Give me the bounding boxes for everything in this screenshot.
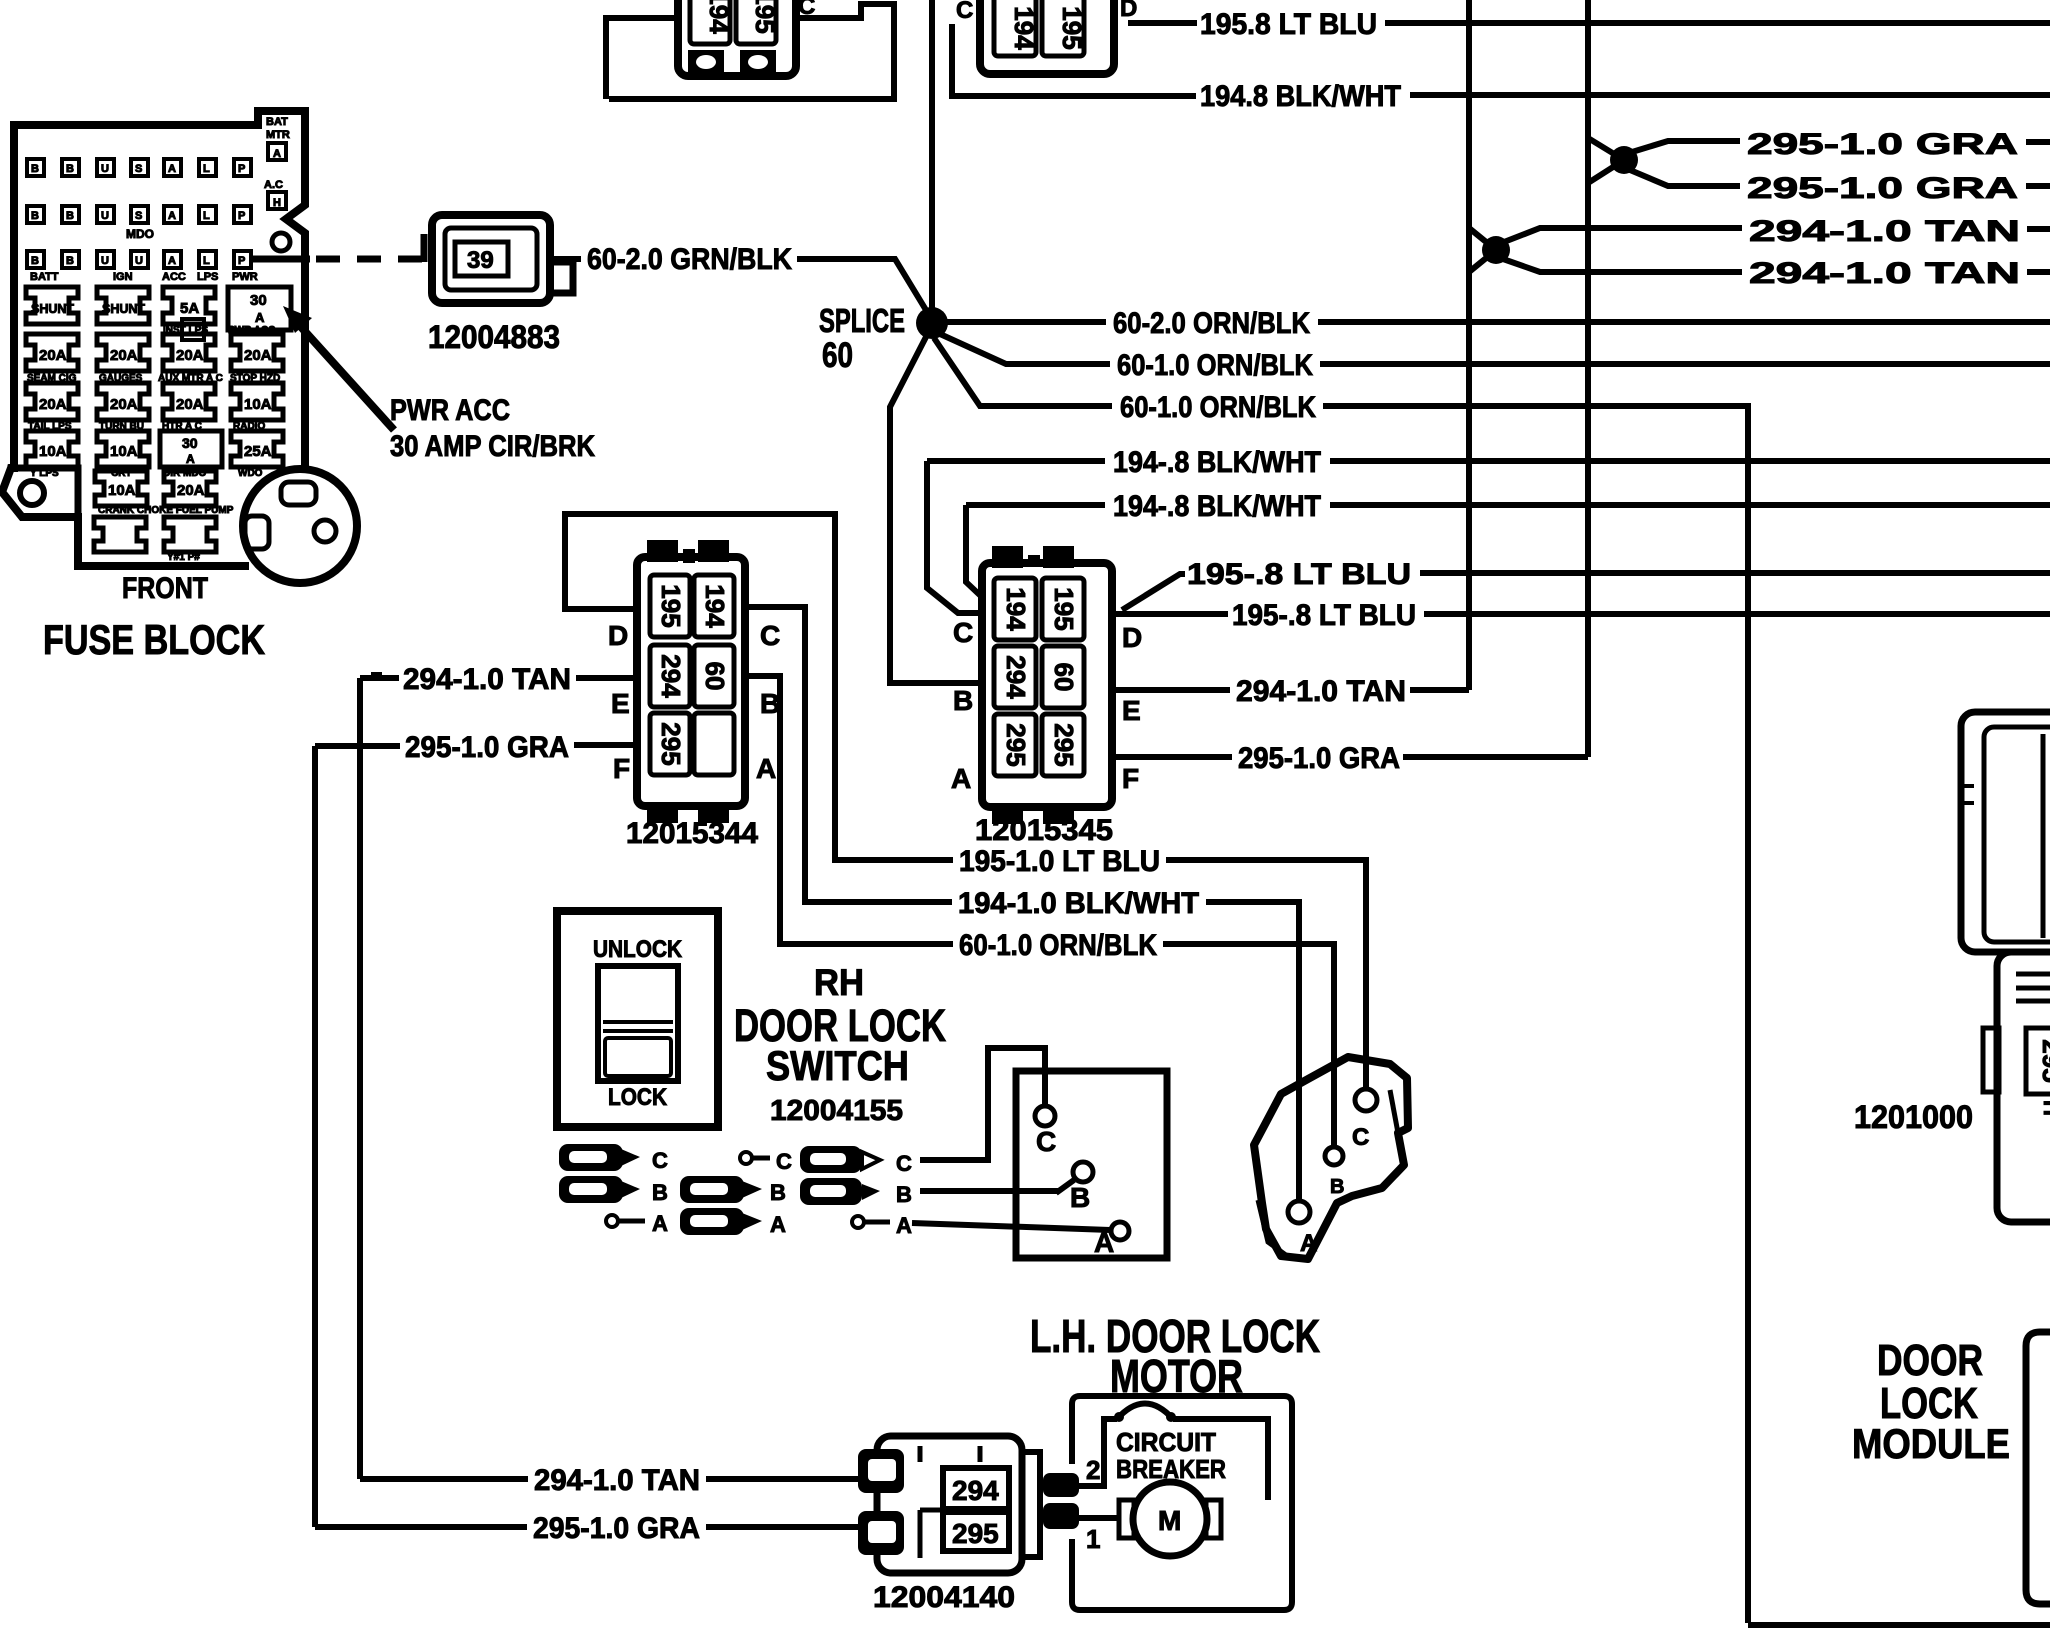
contact B [1073, 1162, 1093, 1182]
actuator pin A [1288, 1201, 1310, 1223]
fuse 20A r3c1 [26, 383, 78, 420]
wire 295-1.0 GRA from pin F to vertical [1112, 754, 1232, 760]
svg-text:20A: 20A [176, 347, 204, 364]
svg-text:ACC: ACC [162, 271, 186, 283]
svg-text:BAT: BAT [266, 116, 288, 128]
junction S2 [1482, 236, 1510, 264]
svg-text:60-2.0 ORN/BLK: 60-2.0 ORN/BLK [1113, 307, 1310, 340]
svg-text:RH: RH [814, 962, 864, 1003]
wire label to splice 60 [797, 259, 929, 315]
svg-text:H: H [2039, 1100, 2050, 1116]
motor circuit box [1043, 1396, 1292, 1610]
svg-text:LPS: LPS [197, 271, 218, 283]
square A [268, 143, 286, 160]
svg-text:195-.8 LT BLU: 195-.8 LT BLU [1187, 558, 1411, 591]
svg-text:A: A [770, 1212, 786, 1237]
svg-text:PWR ACC: PWR ACC [390, 394, 510, 427]
wire pin C to 194-1.0 BLK/WHT [745, 607, 952, 902]
svg-text:Y LPS: Y LPS [30, 468, 59, 479]
svg-text:WDO: WDO [238, 468, 263, 479]
square H [268, 192, 286, 209]
svg-text:295: 295 [1049, 723, 1079, 766]
wire 60-1.0 ORN/BLK first [940, 334, 1110, 364]
svg-text:E: E [1122, 695, 1141, 726]
svg-text:PWR: PWR [232, 271, 258, 283]
wire terminal 2 to breaker [1079, 1419, 1117, 1486]
svg-text:F: F [1122, 763, 1139, 794]
actuator pin C [1355, 1089, 1377, 1111]
svg-text:5A: 5A [180, 300, 199, 317]
wire 194-.8 BLK/WHT second [966, 502, 1105, 508]
lobe slot vertical [245, 516, 269, 549]
svg-text:294: 294 [952, 1475, 999, 1506]
svg-text:C: C [956, 0, 973, 24]
svg-text:P: P [238, 255, 245, 267]
svg-text:B: B [896, 1182, 912, 1207]
svg-text:H: H [273, 197, 281, 209]
svg-text:L: L [203, 163, 210, 175]
svg-text:U: U [135, 255, 143, 267]
RH DOOR LOCK SWITCH label [734, 962, 946, 1127]
svg-text:B: B [31, 255, 39, 267]
svg-text:A: A [951, 763, 971, 794]
svg-text:C: C [953, 617, 973, 648]
svg-text:1: 1 [1086, 1524, 1100, 1554]
circuit breaker 30A r4c3 [160, 431, 222, 467]
fuse 20A r2c3 [163, 334, 215, 371]
svg-text:UNLOCK: UNLOCK [593, 936, 683, 963]
svg-text:L: L [203, 210, 210, 222]
svg-text:DOOR: DOOR [1877, 1336, 1983, 1385]
svg-text:10A: 10A [244, 396, 272, 413]
svg-text:20A: 20A [39, 396, 67, 413]
svg-text:60: 60 [822, 336, 853, 375]
left wire 294-1.0 TAN to 12015344 pin E [360, 675, 399, 681]
svg-text:295-1.0 GRA: 295-1.0 GRA [1747, 172, 2018, 205]
svg-text:195: 195 [750, 0, 780, 34]
G3 plug B [800, 1178, 862, 1205]
circuit breaker 30A PWR ACC [228, 287, 291, 330]
motor M [1133, 1482, 1207, 1556]
G2 pin C [740, 1152, 752, 1164]
svg-text:194.8 BLK/WHT: 194.8 BLK/WHT [1200, 80, 1401, 113]
fuse SHUNT 2 [97, 287, 149, 324]
stray ink blob [371, 672, 382, 680]
svg-text:P: P [238, 163, 245, 175]
svg-text:B: B [66, 210, 74, 222]
fuse block bottom-right lobe [243, 469, 357, 583]
door lock actuator [1254, 1057, 1408, 1259]
svg-text:194-1.0 BLK/WHT: 194-1.0 BLK/WHT [958, 887, 1199, 920]
terminal 1 blob [1043, 1503, 1079, 1529]
svg-text:20A: 20A [244, 347, 272, 364]
svg-text:B: B [66, 163, 74, 175]
svg-text:CIRCUIT: CIRCUIT [1116, 1427, 1216, 1457]
switch contact box [912, 1048, 1167, 1258]
edge circle [272, 233, 290, 251]
svg-text:295-1.0 GRA: 295-1.0 GRA [533, 1512, 700, 1545]
arrow to 30A breaker [301, 327, 394, 430]
PWR ACC 30 AMP CIR/BRK callout [283, 306, 595, 463]
svg-text:C: C [776, 1149, 792, 1174]
wire breaker to motor [1173, 1419, 1268, 1500]
lever to contact B [1056, 1180, 1074, 1193]
svg-text:294-1.0 TAN: 294-1.0 TAN [1236, 675, 1406, 708]
fuse block FB1 [2, 111, 382, 680]
wire 195-.8 LT BLU second [1114, 611, 1228, 617]
wire 294-1.0 TAN upper [1504, 228, 1742, 242]
top-left connector C100 [678, 0, 815, 76]
svg-text:194-.8 BLK/WHT: 194-.8 BLK/WHT [1113, 490, 1321, 523]
svg-text:A: A [168, 255, 176, 267]
svg-text:S: S [135, 210, 142, 222]
svg-text:12004140: 12004140 [873, 1581, 1015, 1614]
contact A [1111, 1222, 1129, 1240]
svg-text:12015345: 12015345 [975, 814, 1113, 847]
G3 pin A [852, 1216, 864, 1228]
svg-text:SPLICE: SPLICE [819, 302, 905, 339]
svg-text:Y#1 P#: Y#1 P# [167, 552, 200, 563]
svg-text:195: 195 [656, 584, 686, 627]
svg-text:B: B [1330, 1176, 1344, 1198]
svg-text:10A: 10A [108, 482, 136, 499]
svg-text:C: C [896, 1151, 912, 1176]
svg-text:60-2.0 GRN/BLK: 60-2.0 GRN/BLK [587, 243, 792, 276]
svg-text:A: A [273, 148, 281, 160]
svg-text:FUSE BLOCK: FUSE BLOCK [43, 616, 265, 663]
fuse 20A r3c3 [163, 383, 215, 420]
svg-text:B: B [1070, 1182, 1090, 1213]
wire 194-.8 BLK/WHT first [927, 458, 1105, 464]
svg-text:1201000: 1201000 [1854, 1099, 1973, 1135]
svg-text:195: 195 [1049, 587, 1079, 630]
G2 plug A [680, 1208, 744, 1235]
svg-text:A: A [1300, 1230, 1317, 1257]
svg-text:A: A [255, 310, 265, 325]
lobe hole [314, 520, 336, 542]
svg-text:60-1.0 ORN/BLK: 60-1.0 ORN/BLK [1120, 391, 1316, 424]
terminal group G2 [680, 1149, 792, 1237]
svg-text:2: 2 [1086, 1455, 1100, 1485]
svg-text:20A: 20A [39, 347, 67, 364]
wire 195-.8 LT BLU first [1122, 574, 1185, 610]
svg-text:294-1.0 TAN: 294-1.0 TAN [1749, 257, 2020, 290]
svg-text:LOCK: LOCK [608, 1084, 668, 1111]
svg-text:30: 30 [182, 435, 198, 451]
wire G3 B to lever [920, 1191, 1056, 1194]
terminal group G3 [800, 1146, 912, 1238]
svg-text:C: C [798, 0, 815, 20]
fuse 5A [163, 287, 215, 324]
fuse r6c2 [94, 517, 146, 552]
fuse 20A r3c2 [97, 383, 149, 420]
svg-text:U: U [101, 210, 109, 222]
svg-text:IGN: IGN [113, 271, 133, 283]
connector square grid rows [27, 159, 251, 268]
svg-text:194: 194 [1001, 587, 1031, 631]
svg-text:194: 194 [1009, 6, 1039, 50]
SPLICE 60 [819, 302, 948, 375]
svg-text:A: A [896, 1213, 912, 1238]
wire 295-1.0 GRA lower [1630, 170, 1740, 186]
lobe slot D [281, 482, 316, 505]
vertical wire to junction S2 [1466, 0, 1472, 690]
svg-text:B: B [652, 1180, 668, 1205]
svg-text:20A: 20A [176, 396, 204, 413]
wire 295-1.0 GRA bottom [315, 1524, 527, 1530]
svg-text:194: 194 [700, 584, 730, 628]
fuse 20A r2c4 [231, 334, 283, 371]
svg-text:295-1.0 GRA: 295-1.0 GRA [1238, 742, 1400, 775]
svg-text:C: C [652, 1148, 668, 1173]
connector 1201000 [1854, 712, 2050, 1222]
svg-text:60: 60 [1049, 663, 1079, 692]
fuse 10A r4c2 [97, 431, 149, 467]
fuse 20A r2c1 [26, 334, 78, 371]
svg-text:C: C [760, 620, 780, 651]
fuse sub block under 5A [182, 319, 204, 340]
wire pin D loop to 195-1.0 LT BLU [565, 514, 953, 860]
wire 60-1.0 ORN/BLK second to door lock module [934, 338, 1112, 406]
svg-text:295: 295 [2037, 1039, 2050, 1082]
G2 plug B [680, 1176, 744, 1203]
svg-text:MTR: MTR [266, 129, 290, 141]
svg-text:B: B [770, 1180, 786, 1205]
svg-text:295: 295 [656, 722, 686, 765]
circuit breaker arc [1117, 1404, 1173, 1420]
svg-text:A: A [168, 210, 176, 222]
svg-text:L: L [203, 255, 210, 267]
svg-text:C: C [1036, 1126, 1056, 1157]
wire 294-1.0 TAN bottom [360, 1476, 528, 1482]
svg-text:U: U [101, 163, 109, 175]
wire 60-1.0 ORN/BLK from splice to 12015345 pin B [890, 335, 982, 683]
svg-text:195: 195 [1057, 6, 1087, 49]
junction S1 [1610, 146, 1638, 174]
connector 12015344 [608, 543, 780, 850]
svg-text:60: 60 [700, 662, 730, 691]
svg-text:A: A [756, 753, 776, 784]
svg-text:20A: 20A [110, 396, 138, 413]
door lock switch rocker [557, 911, 718, 1127]
svg-text:12004883: 12004883 [428, 319, 560, 355]
svg-text:SWITCH: SWITCH [766, 1042, 909, 1089]
contact C [1035, 1106, 1055, 1126]
svg-text:B: B [31, 210, 39, 222]
top-right connector box wire [952, 24, 1196, 96]
svg-text:194-.8 BLK/WHT: 194-.8 BLK/WHT [1113, 446, 1321, 479]
G1 pin A [606, 1215, 618, 1227]
svg-text:294-1.0 TAN: 294-1.0 TAN [534, 1464, 700, 1497]
svg-text:294-1.0 TAN: 294-1.0 TAN [1749, 215, 2020, 248]
fuse 20A r2c2 [97, 334, 149, 371]
fuse SHUNT 1 [26, 287, 78, 324]
svg-text:F: F [613, 753, 630, 784]
connector 12004140 [858, 1436, 1040, 1614]
svg-text:SHUNT: SHUNT [31, 301, 74, 316]
svg-text:60-1.0 ORN/BLK: 60-1.0 ORN/BLK [959, 929, 1157, 962]
dashed wire fuse block to 12004883 [252, 256, 310, 263]
svg-text:294: 294 [1001, 655, 1031, 699]
svg-text:294: 294 [656, 654, 686, 698]
svg-text:25A: 25A [244, 443, 272, 460]
svg-text:195.8 LT BLU: 195.8 LT BLU [1200, 8, 1377, 41]
svg-text:30: 30 [250, 292, 267, 309]
svg-text:12004155: 12004155 [770, 1095, 903, 1127]
connector 12015345 [951, 549, 1142, 847]
svg-text:10A: 10A [39, 443, 67, 460]
svg-text:B: B [66, 255, 74, 267]
svg-text:CRANK CHOKE FUEL PUMP: CRANK CHOKE FUEL PUMP [98, 505, 234, 516]
wire 195.8 LT BLU [1128, 20, 1197, 26]
fuse 25A r4c4 [231, 431, 283, 467]
svg-text:12015344: 12015344 [626, 817, 758, 850]
svg-text:195-1.0 LT BLU: 195-1.0 LT BLU [959, 845, 1160, 878]
svg-text:10A: 10A [110, 443, 138, 460]
fuse 10A r4c1 [26, 431, 78, 467]
left vertical wire 294 [357, 678, 363, 1479]
door lock module inner box [2026, 1332, 2050, 1604]
terminal group G1 [559, 1144, 668, 1236]
svg-text:294-1.0 TAN: 294-1.0 TAN [403, 663, 571, 696]
svg-text:C: C [1352, 1124, 1369, 1151]
terminal 2 blob [1043, 1473, 1079, 1497]
svg-text:MODULE: MODULE [1852, 1420, 2010, 1467]
svg-text:BATT: BATT [30, 271, 59, 283]
wire pin B to 60-1.0 ORN/BLK [745, 676, 953, 944]
G1 plug C [559, 1144, 623, 1171]
svg-text:MDO: MDO [126, 227, 154, 241]
wire 60-2.0 ORN/BLK [946, 319, 1106, 325]
svg-text:60-1.0 ORN/BLK: 60-1.0 ORN/BLK [1117, 349, 1313, 382]
svg-text:B: B [31, 163, 39, 175]
fuse 20A r5c3 [164, 471, 216, 506]
svg-text:U: U [101, 255, 109, 267]
fuse 10A r5c2 [95, 471, 147, 506]
wire terminal 1 to motor [1079, 1515, 1119, 1521]
svg-text:M: M [1158, 1505, 1181, 1536]
svg-text:20A: 20A [177, 482, 205, 499]
wire 294-1.0 TAN from pin E to vertical [1112, 687, 1230, 693]
svg-text:20A: 20A [110, 347, 138, 364]
fuse r6c3 [164, 517, 216, 552]
wire 294-1.0 TAN lower [1503, 259, 1742, 272]
wire splice vertical to top [929, 0, 935, 310]
tab hole [20, 481, 44, 505]
svg-text:39: 39 [467, 247, 494, 274]
svg-text:D: D [608, 620, 628, 651]
svg-text:D: D [1122, 622, 1142, 653]
fuse 10A r3c4 [231, 383, 283, 420]
G3 plug C [800, 1146, 862, 1173]
connector 12004883 [424, 215, 573, 355]
left wire 295-1.0 GRA to 12015344 pin F [315, 743, 400, 749]
svg-text:295-1.0 GRA: 295-1.0 GRA [405, 731, 569, 764]
G1 plug B [559, 1176, 623, 1203]
svg-text:A: A [186, 452, 195, 466]
svg-text:D: D [1120, 0, 1137, 22]
actuator pin B [1325, 1147, 1343, 1165]
svg-text:195-.8 LT BLU: 195-.8 LT BLU [1232, 599, 1416, 632]
svg-text:B: B [953, 685, 973, 716]
svg-text:A.C: A.C [264, 179, 283, 191]
fuse block outline [14, 111, 305, 468]
svg-text:A: A [168, 163, 176, 175]
top-left connector box wire [606, 18, 678, 99]
svg-text:A: A [652, 1211, 668, 1236]
wire 12004883 to label [553, 256, 581, 262]
svg-text:295: 295 [952, 1518, 999, 1549]
svg-text:A: A [1094, 1227, 1114, 1258]
top-right connector C200 [956, 0, 1137, 74]
vertical wire to junction S1 [1585, 0, 1591, 757]
wire 295-1.0 GRA upper [1632, 141, 1740, 152]
svg-text:E: E [611, 688, 630, 719]
svg-text:P: P [238, 210, 245, 222]
left vertical wire 295 [312, 746, 318, 1527]
svg-text:295-1.0 GRA: 295-1.0 GRA [1747, 128, 2018, 161]
svg-text:194: 194 [704, 0, 734, 34]
svg-text:SHUNT: SHUNT [102, 301, 145, 316]
svg-text:S: S [135, 163, 142, 175]
wire G3 A to contact A [912, 1223, 1110, 1230]
wire G3 C to contact C [920, 1048, 1045, 1160]
svg-text:30 AMP CIR/BRK: 30 AMP CIR/BRK [390, 430, 595, 463]
svg-text:FRONT: FRONT [122, 572, 208, 605]
svg-text:295: 295 [1001, 723, 1031, 766]
